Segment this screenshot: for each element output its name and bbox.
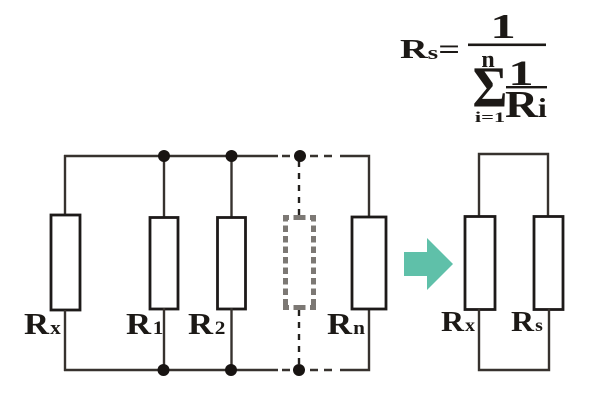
wire Rx branch top (64, 155, 66, 217)
junction dot R2 bottom (225, 364, 237, 376)
svg-text:Rn: Rn (327, 308, 365, 342)
junction dot ellipsis branch top (294, 150, 306, 162)
label R2 (188, 308, 225, 342)
formula sigma lower limit i=1 (475, 109, 505, 125)
resistor Rs (equivalent circuit) (534, 217, 563, 310)
resistor Rx (51, 215, 80, 310)
wire R1 branch top (163, 156, 165, 219)
formula main numerator 1 (490, 7, 515, 46)
wire right circuit top rail (479, 154, 548, 217)
formula label Rs= (400, 34, 460, 64)
junction dot R1 top (158, 150, 170, 162)
svg-text:R1: R1 (126, 308, 163, 342)
wire bottom rail solid left segment (64, 369, 278, 371)
svg-text:i=1: i=1 (475, 109, 505, 125)
formula inner numerator 1 (508, 54, 533, 93)
resistor Rn (352, 217, 386, 309)
formula inner fraction bar (506, 86, 547, 88)
junction dot R1 bottom (158, 364, 170, 376)
wire R2 branch top (230, 156, 232, 219)
wire dashed ellipsis branch bottom (298, 310, 300, 366)
label Rn (327, 308, 365, 342)
svg-text:1: 1 (490, 7, 515, 46)
svg-text:Rs=: Rs= (400, 34, 460, 64)
wire top rail dash-dot segment (282, 155, 338, 157)
wire right circuit bottom rail (479, 308, 549, 370)
formula sigma upper limit n (481, 47, 494, 73)
label Rx (equivalent circuit) (441, 305, 476, 337)
arrow (transform indicator) (404, 238, 453, 290)
resistor R2 (218, 218, 246, 310)
label Rx (24, 308, 61, 342)
wire bottom rail dash-dot segment (282, 369, 338, 371)
wire bottom rail solid right segment with corner to Rn (340, 308, 369, 370)
wire R2 branch bottom (230, 308, 232, 371)
label R1 (126, 308, 163, 342)
svg-text:R2: R2 (188, 308, 225, 342)
formula main fraction bar (468, 44, 546, 47)
label Rs (equivalent circuit) (511, 305, 543, 337)
wire R1 branch bottom (163, 308, 165, 371)
formula inner denominator Ri (505, 84, 547, 126)
resistor R1 (150, 218, 178, 310)
svg-text:Ri: Ri (505, 84, 547, 126)
resistor ellipsis (dashed placeholder) (283, 215, 316, 310)
wire top rail solid left segment (64, 155, 278, 157)
wire top rail solid right segment with corner to Rn (340, 156, 369, 218)
junction dot ellipsis branch bottom (293, 364, 305, 376)
wire Rx branch bottom (64, 310, 66, 371)
junction dot R2 top (226, 150, 238, 162)
formula sigma (473, 56, 508, 121)
svg-text:Rx: Rx (24, 308, 61, 342)
wire dashed ellipsis branch top (298, 161, 300, 215)
resistor Rx (equivalent circuit) (465, 217, 495, 310)
